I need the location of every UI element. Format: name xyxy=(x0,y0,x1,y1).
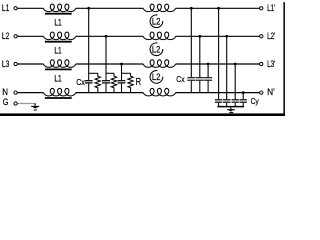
wire row L1 left xyxy=(17,7,43,9)
svg-text:L1: L1 xyxy=(54,46,61,56)
svg-text:L3: L3 xyxy=(2,59,9,69)
wire row L1 right xyxy=(176,7,260,9)
svg-text:L2: L2 xyxy=(152,45,161,56)
junction node on L2' at x=199.8 xyxy=(198,35,201,38)
svg-text:L2': L2' xyxy=(267,31,275,41)
capacitor Cx with discharge resistor R, cell 3 xyxy=(118,73,134,92)
junction node on L3' at x=208.1 xyxy=(207,63,210,66)
wire row L2 right xyxy=(176,35,260,37)
Cy ground bus bar xyxy=(217,106,244,108)
wire tap L1 to Cx cell 1 xyxy=(88,8,90,73)
svg-text:G: G xyxy=(3,97,9,107)
capacitor Cx with discharge resistor R, cell 1 xyxy=(85,73,101,92)
choke L2 winding row N xyxy=(143,88,176,96)
inductor L1 coil row N xyxy=(43,88,76,96)
terminal L3 xyxy=(14,62,17,65)
wire row N middle xyxy=(76,92,143,94)
wire row L2 middle xyxy=(76,35,143,37)
svg-text:L2: L2 xyxy=(2,31,9,41)
inductor L1 coil row L1 xyxy=(43,4,76,12)
wire tap L2 to Cx cell 2 xyxy=(105,36,107,73)
core bar of inductor row L1 xyxy=(45,13,72,15)
inductor L1 coil row L3 xyxy=(43,60,76,68)
junction node on L1 at x=88.7 xyxy=(87,7,90,10)
svg-text:L3': L3' xyxy=(267,59,275,69)
ground symbol at Cy bus xyxy=(227,107,235,112)
wire tap L3 to Cx cell 3 xyxy=(121,64,123,73)
svg-text:Cx: Cx xyxy=(76,77,85,87)
capacitor Cx (output bank) 1 xyxy=(187,78,195,93)
wire tap L2' to output Cx cap 2 xyxy=(199,36,201,77)
junction node on L1' at x=218.6 xyxy=(217,7,220,10)
wire tap L3' to output Cx cap 3 xyxy=(207,64,209,77)
capacitor Cy 2 xyxy=(223,100,230,107)
bottom frame border xyxy=(0,113,285,116)
svg-text:L2: L2 xyxy=(152,17,161,28)
inductor L1 coil row L2 xyxy=(43,32,76,40)
capacitor Cx with discharge resistor R, cell 2 xyxy=(102,73,117,92)
junction node on L3' at x=235.2 xyxy=(234,63,237,66)
wire row L2 left xyxy=(17,35,43,37)
ground symbol at G terminal xyxy=(31,103,39,110)
terminal L1 xyxy=(14,7,17,10)
core bar of inductor row L2 xyxy=(45,41,72,43)
svg-text:L1: L1 xyxy=(54,73,61,83)
choke L2 winding row L1 xyxy=(143,4,176,12)
terminal N xyxy=(14,91,17,94)
capacitor Cx (output bank) 2 xyxy=(196,78,204,93)
terminal N' xyxy=(260,91,263,94)
svg-text:L1: L1 xyxy=(54,18,61,28)
terminal L2' xyxy=(260,35,263,38)
terminal L2 xyxy=(14,35,17,38)
wire tap N' to Cy cap 4 xyxy=(242,93,244,100)
terminal L1' xyxy=(260,7,263,10)
svg-text:N: N xyxy=(2,87,8,97)
capacitor Cx (output bank) 3 xyxy=(204,78,212,93)
svg-text:Cx: Cx xyxy=(176,74,185,84)
wire row L3 left xyxy=(17,63,43,65)
junction node on L1' at x=191.3 xyxy=(190,7,193,10)
wire G (gray) xyxy=(17,103,35,105)
choke L2 winding row L3 xyxy=(143,60,176,68)
wire row L3 middle xyxy=(76,63,143,65)
svg-text:L2: L2 xyxy=(152,72,161,83)
wire tap L2' to Cy cap 2 xyxy=(226,36,228,99)
choke L2 winding row L2 xyxy=(143,32,176,40)
capacitor Cy 4 xyxy=(240,100,247,107)
wire tap L1' to Cy cap 1 xyxy=(218,8,220,99)
svg-text:N': N' xyxy=(267,87,275,97)
junction node on L2 at x=106.0 xyxy=(105,35,108,38)
junction node on L3 at x=121.5 xyxy=(120,63,123,66)
svg-text:Cy: Cy xyxy=(251,96,260,106)
capacitor Cy 1 xyxy=(215,100,222,107)
designator circle of choke L2, row 3 xyxy=(150,71,163,84)
svg-text:R: R xyxy=(136,77,142,88)
designator circle of choke L2, row 2 xyxy=(150,43,163,56)
wire tap L1' to output Cx cap 1 xyxy=(190,8,192,77)
junction node on L2' at x=226.7 xyxy=(225,35,228,38)
wire row N left xyxy=(17,92,43,94)
right frame border xyxy=(283,2,285,116)
wire tap L3' to Cy cap 3 xyxy=(234,64,236,99)
core bar of inductor row N xyxy=(45,97,72,99)
terminal L3' xyxy=(260,62,263,65)
wire row N right xyxy=(176,92,260,94)
wire row L1 middle xyxy=(76,7,143,9)
wire row L3 right xyxy=(176,63,260,65)
svg-text:L1': L1' xyxy=(267,3,275,13)
designator circle of choke L2, row 1 xyxy=(150,15,163,28)
svg-text:L1: L1 xyxy=(2,3,9,13)
capacitor Cy 3 xyxy=(232,100,239,107)
terminal G xyxy=(14,102,17,105)
junction node on N' at x=243.2 xyxy=(242,91,245,94)
core bar of inductor row L3 xyxy=(45,68,72,70)
